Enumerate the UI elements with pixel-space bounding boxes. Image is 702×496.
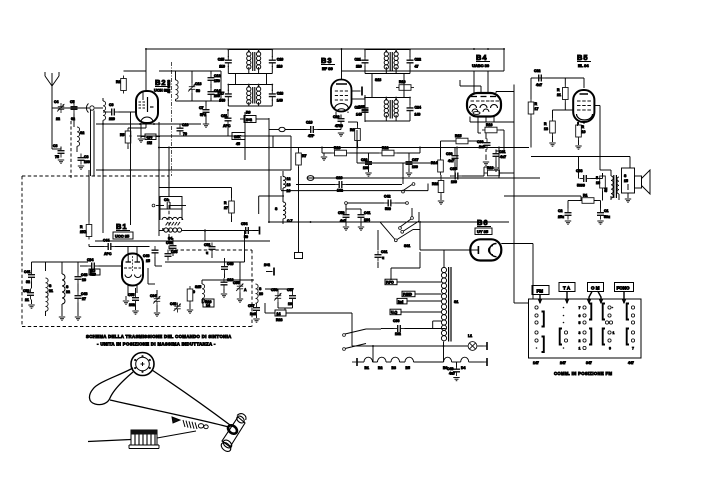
svg-text:C55: C55 <box>128 293 134 297</box>
primary tap P.FO <box>385 279 441 285</box>
wire <box>146 48 504 50</box>
resistor R19 <box>576 122 586 140</box>
capacitor C8 <box>78 154 90 165</box>
capacitor C32 <box>534 69 546 87</box>
capacitor C6 <box>108 103 119 121</box>
svg-text:140: 140 <box>356 112 362 116</box>
svg-text:UCC 85: UCC 85 <box>115 234 130 239</box>
svg-text:C36: C36 <box>393 319 399 323</box>
svg-text:C51: C51 <box>204 243 210 247</box>
resistor R7 <box>296 150 307 168</box>
tube B4 UABC80 <box>467 93 501 117</box>
resistor R17 <box>528 99 538 117</box>
svg-text:COMM. IN POSIZIONE FM: COMM. IN POSIZIONE FM <box>554 371 612 376</box>
wire primary verticals <box>390 268 392 280</box>
svg-text:110: 110 <box>277 65 283 69</box>
capacitor C1 electrolytic <box>597 209 610 220</box>
svg-text:C33: C33 <box>171 250 177 254</box>
svg-text:C20: C20 <box>333 115 339 119</box>
svg-text:B1: B1 <box>116 222 128 231</box>
capacitor C50 <box>338 211 350 224</box>
svg-text:D4: D4 <box>461 366 466 370</box>
resistor R13 <box>332 146 350 156</box>
svg-text:10: 10 <box>287 189 291 193</box>
capacitor C28 <box>361 158 372 171</box>
svg-text:R: R <box>544 122 547 126</box>
svg-text:S61: S61 <box>404 244 410 248</box>
svg-text:19: 19 <box>582 130 586 134</box>
svg-text:56: 56 <box>196 89 200 93</box>
svg-text:C19: C19 <box>306 121 312 125</box>
svg-text:R15: R15 <box>455 134 461 138</box>
capacitor C14 <box>208 88 221 99</box>
svg-text:B2: B2 <box>155 78 167 87</box>
svg-text:R12: R12 <box>382 146 388 150</box>
svg-text:7: 7 <box>579 306 581 310</box>
svg-text:C.7: C.7 <box>287 219 293 223</box>
svg-text:C9: C9 <box>164 198 169 202</box>
dial drum <box>129 430 159 449</box>
svg-text:C32: C32 <box>534 69 540 73</box>
plug connector <box>86 104 94 113</box>
svg-text:14: 14 <box>206 304 210 308</box>
capacitor C3 <box>52 144 65 159</box>
svg-text:22: 22 <box>66 290 70 294</box>
resistor R22 <box>432 178 444 196</box>
coil S25 <box>195 284 205 303</box>
svg-text:6: 6 <box>579 314 581 318</box>
resistor R1 <box>579 194 597 204</box>
svg-text:4u7: 4u7 <box>500 155 506 159</box>
capacitor C55 <box>128 293 139 307</box>
capacitor C10f <box>221 278 234 289</box>
resistor R21 <box>557 85 568 103</box>
label B3 <box>321 56 335 71</box>
svg-text:21: 21 <box>49 289 53 293</box>
svg-text:13: 13 <box>287 183 291 187</box>
svg-text:C40: C40 <box>447 367 453 371</box>
resistor R15 <box>453 134 471 144</box>
switch contact SW-a <box>402 183 415 193</box>
capacitor C2 electrolytic <box>558 209 572 220</box>
label B2 <box>154 78 169 93</box>
svg-text:17: 17 <box>535 107 539 111</box>
svg-text:- UNITA IN POSIZIONE DI MA: - UNITA IN POSIZIONE DI MASSIMA INDUTTAN… <box>97 342 216 347</box>
wire grid to B2 <box>95 107 103 109</box>
svg-text:147: 147 <box>533 361 539 365</box>
svg-text:R: R <box>582 125 585 129</box>
terminal plate B3 <box>352 87 363 96</box>
primary tap U.Q <box>390 309 441 315</box>
heater chain <box>352 357 487 370</box>
svg-text:B3: B3 <box>321 56 333 65</box>
field coil box <box>622 168 635 193</box>
svg-text:EL 84: EL 84 <box>578 63 589 68</box>
svg-text:C17: C17 <box>218 91 224 95</box>
svg-text:B6: B6 <box>477 218 489 227</box>
svg-text:B5: B5 <box>577 53 589 62</box>
button FM <box>532 286 549 304</box>
svg-text:1: 1 <box>613 331 615 335</box>
capacitor C58 <box>287 288 296 306</box>
speaker <box>635 170 651 194</box>
svg-text:ind: ind <box>398 300 403 304</box>
resistor R5-16 <box>596 173 605 191</box>
svg-text:A: A <box>244 288 247 292</box>
svg-text:R8: R8 <box>350 128 355 132</box>
ground <box>58 160 64 163</box>
svg-text:47: 47 <box>415 65 419 69</box>
capacitor C41 <box>358 211 371 223</box>
svg-text:R6: R6 <box>246 111 251 115</box>
svg-text:100: 100 <box>451 180 457 184</box>
dashed screen left <box>70 121 72 178</box>
svg-text:110: 110 <box>356 65 362 69</box>
ground <box>138 139 144 142</box>
svg-text:C1: C1 <box>604 209 609 213</box>
svg-text:100: 100 <box>84 160 90 164</box>
svg-text:2u2: 2u2 <box>250 312 256 316</box>
tuner shaft <box>220 414 246 454</box>
svg-text:247: 247 <box>560 361 566 365</box>
ground <box>338 133 344 136</box>
svg-text:C24: C24 <box>415 105 421 109</box>
svg-text:5000: 5000 <box>577 184 585 188</box>
svg-text:500: 500 <box>385 207 391 211</box>
capacitor C61 <box>375 250 388 262</box>
svg-text:2uF: 2uF <box>479 145 486 149</box>
resistor R16 <box>482 123 500 133</box>
svg-text:L1: L1 <box>468 334 472 338</box>
resistor R27 <box>224 198 234 216</box>
capacitor C11 <box>221 114 232 128</box>
svg-text:9: 9 <box>193 290 195 294</box>
capacitor C46 <box>143 246 159 263</box>
svg-text:12: 12 <box>287 177 291 181</box>
wire output feed <box>531 156 630 158</box>
capacitor C7 <box>199 106 210 118</box>
svg-text:C2: C2 <box>558 209 563 213</box>
svg-text:S9 0089: S9 0089 <box>167 80 171 93</box>
node junction diamond <box>279 127 285 131</box>
capacitor C43b <box>75 292 88 303</box>
capacitor C52 <box>241 222 253 239</box>
svg-text:C7: C7 <box>199 106 204 110</box>
svg-text:P.IND: P.IND <box>403 293 412 297</box>
svg-text:C11: C11 <box>221 114 227 118</box>
svg-text:C16: C16 <box>182 123 188 127</box>
svg-text:FONO: FONO <box>617 286 630 291</box>
svg-text:150: 150 <box>214 79 220 83</box>
svg-text:15: 15 <box>624 179 628 183</box>
ground <box>78 166 84 169</box>
IF transformer S11 S12 <box>247 50 261 74</box>
svg-text:5: 5 <box>579 321 581 325</box>
svg-text:UABC 80: UABC 80 <box>472 63 490 68</box>
svg-text:5: 5 <box>596 176 598 180</box>
svg-text:C43: C43 <box>81 273 87 277</box>
svg-text:21: 21 <box>25 298 29 302</box>
capacitor C18 <box>269 90 283 103</box>
ground <box>203 124 209 127</box>
svg-text:B4: B4 <box>476 53 488 62</box>
svg-text:C16: C16 <box>277 58 283 62</box>
svg-text:C41: C41 <box>364 211 370 215</box>
wire output <box>591 178 603 180</box>
svg-text:B2: B2 <box>378 366 383 370</box>
svg-text:S: S <box>624 174 627 178</box>
capacitor C41f <box>24 270 35 284</box>
resistor R8 <box>350 126 360 144</box>
svg-text:S2: S2 <box>80 131 84 135</box>
oscillator coil S9 <box>167 71 178 101</box>
svg-text:O M: O M <box>591 286 600 291</box>
mains switch lower <box>343 329 446 351</box>
wire cans verticals <box>235 74 237 85</box>
svg-text:2: 2 <box>579 339 581 343</box>
svg-text:47P: 47P <box>308 134 315 138</box>
svg-text:3: 3 <box>579 331 581 335</box>
resistor R23 <box>485 166 503 176</box>
svg-text:27: 27 <box>224 206 228 210</box>
svg-text:S13: S13 <box>375 78 381 82</box>
svg-text:R: R <box>224 201 227 205</box>
gang dash-dot link <box>171 62 173 176</box>
svg-text:S4: S4 <box>168 237 172 241</box>
svg-text:R: R <box>535 102 538 106</box>
svg-text:4u7: 4u7 <box>340 219 346 223</box>
wire osc <box>159 70 221 72</box>
svg-text:45: 45 <box>236 142 240 146</box>
svg-text:FM: FM <box>537 289 544 294</box>
svg-text:C18: C18 <box>277 91 283 95</box>
wire B5 <box>552 110 554 118</box>
svg-text:C44: C44 <box>103 239 109 243</box>
wire plug down-pair <box>90 110 92 176</box>
svg-text:C5: C5 <box>70 100 75 104</box>
svg-text:EF 89: EF 89 <box>322 66 333 71</box>
svg-text:C4: C4 <box>54 100 59 104</box>
svg-text:447: 447 <box>628 361 634 365</box>
svg-text:U.Q: U.Q <box>391 311 398 315</box>
node dot <box>204 229 206 231</box>
svg-text:C13: C13 <box>195 82 201 86</box>
svg-text:APC: APC <box>223 124 231 128</box>
power transformer S1 <box>441 267 458 342</box>
svg-text:C35: C35 <box>450 167 456 171</box>
capacitor C5 <box>70 100 78 121</box>
wire B4 pins <box>473 71 475 93</box>
svg-text:220: 220 <box>109 117 115 121</box>
svg-text:4u7: 4u7 <box>536 83 542 87</box>
wire cathode <box>140 123 142 138</box>
coil L ant <box>103 98 106 124</box>
diagonal wire <box>380 222 395 240</box>
svg-text:S1: S1 <box>454 300 458 304</box>
svg-text:R22: R22 <box>432 182 438 186</box>
svg-text:16: 16 <box>82 278 86 282</box>
svg-text:B1: B1 <box>365 366 370 370</box>
svg-text:S25: S25 <box>195 285 201 289</box>
capacitor C24 <box>407 104 421 117</box>
trimmer C13 <box>188 82 201 93</box>
svg-text:1: 1 <box>579 347 581 351</box>
mains switch contacts <box>394 212 420 248</box>
svg-text:S: S <box>49 284 52 288</box>
svg-text:C29: C29 <box>336 176 342 180</box>
button OM <box>587 283 603 304</box>
cord tension spring <box>172 417 208 429</box>
svg-text:C36: C36 <box>446 152 452 156</box>
trimmer C56 <box>233 281 247 293</box>
svg-text:1M: 1M <box>147 141 152 145</box>
capacitor C30 electrolytic <box>477 139 491 150</box>
svg-text:C41: C41 <box>24 270 30 274</box>
capacitor C31 <box>493 150 507 161</box>
capacitor C4 trimmer <box>54 100 65 121</box>
capacitor C16 <box>269 56 283 69</box>
svg-text:4u7: 4u7 <box>448 159 454 163</box>
svg-text:102: 102 <box>337 189 343 193</box>
svg-text:9: 9 <box>609 347 611 351</box>
svg-text:u: u <box>206 251 208 255</box>
wire <box>365 49 410 51</box>
svg-text:C3: C3 <box>53 144 58 148</box>
label B6 <box>475 218 492 235</box>
resistor R26 box <box>203 299 214 308</box>
label B4 <box>472 53 490 68</box>
svg-text:2+2: 2+2 <box>246 118 252 122</box>
resistor R9f <box>187 286 195 304</box>
pilot lamp L1 <box>366 334 487 362</box>
svg-text:32: 32 <box>26 280 30 284</box>
antenna <box>45 72 59 149</box>
capacitor C21 <box>355 56 369 69</box>
svg-text:21: 21 <box>557 93 561 97</box>
button TA <box>559 283 575 304</box>
primary tap P.IND <box>402 291 441 297</box>
resistor R14 <box>431 157 443 175</box>
resistor R1f <box>80 222 92 240</box>
svg-text:R28: R28 <box>276 318 282 322</box>
capacitor C53 <box>23 289 34 303</box>
svg-text:C15: C15 <box>218 58 224 62</box>
svg-text:R13: R13 <box>334 146 340 150</box>
svg-text:16: 16 <box>596 181 600 185</box>
svg-text:7: 7 <box>632 347 634 351</box>
svg-text:C42: C42 <box>384 195 390 199</box>
svg-text:4u7: 4u7 <box>449 372 455 376</box>
svg-text:C57: C57 <box>248 304 254 308</box>
capacitor C33f <box>165 250 178 261</box>
capacitor C43a <box>75 273 88 284</box>
svg-text:R10: R10 <box>399 80 405 84</box>
capacitor C27 <box>406 158 419 170</box>
switch contact SW-b <box>399 208 414 229</box>
svg-text:S: S <box>66 285 69 289</box>
junction dots <box>145 48 147 50</box>
oscillator transformer S4/C9 <box>152 197 186 241</box>
capacitor C10 <box>139 123 188 136</box>
svg-text:C64: C64 <box>150 294 156 298</box>
svg-text:C22: C22 <box>415 58 421 62</box>
coil S21 <box>46 278 53 311</box>
resistor R3 box <box>141 134 160 145</box>
svg-text:P.FO: P.FO <box>386 281 394 285</box>
svg-text:50u: 50u <box>604 215 610 219</box>
ground <box>453 378 459 381</box>
capacitor C15 <box>218 56 232 69</box>
svg-text:C6: C6 <box>109 103 114 107</box>
svg-text:C61: C61 <box>381 250 387 254</box>
coil S17b <box>275 202 293 223</box>
svg-text:R2: R2 <box>116 80 121 84</box>
tube B6 UY85 <box>470 239 501 260</box>
tube B1 UCC85 <box>122 254 143 297</box>
svg-text:523: 523 <box>90 273 96 277</box>
svg-text:R: R <box>557 88 560 92</box>
svg-text:27: 27 <box>82 297 86 301</box>
capacitor C12 <box>208 74 221 85</box>
svg-text:R1: R1 <box>583 194 588 198</box>
terminal P <box>264 263 274 276</box>
capacitor C45 <box>166 241 177 253</box>
wire middle verticals <box>345 222 347 227</box>
svg-text:104: 104 <box>364 218 370 222</box>
svg-text:C55: C55 <box>233 281 239 285</box>
capacitor C20 <box>333 115 345 129</box>
svg-text:S: S <box>275 207 278 211</box>
resistor R12 <box>379 146 397 156</box>
svg-text:C43: C43 <box>81 292 87 296</box>
coil S2 <box>77 127 84 152</box>
primary tap ind <box>397 298 441 304</box>
svg-text:T A: T A <box>563 286 571 291</box>
tube B5 EL84 <box>573 90 594 126</box>
svg-text:R: R <box>80 225 83 229</box>
svg-text:C21: C21 <box>355 58 361 62</box>
svg-text:R16: R16 <box>486 123 492 127</box>
IF transformer S13 <box>384 50 398 74</box>
svg-text:100: 100 <box>412 165 418 169</box>
tuning pulley <box>131 353 154 376</box>
capacitor C23 <box>355 104 369 117</box>
svg-text:347: 347 <box>586 361 592 365</box>
capacitor C40 <box>447 362 460 376</box>
capacitor C51 <box>204 243 216 256</box>
svg-text:22: 22 <box>56 117 60 121</box>
capacitor C36 <box>446 152 459 164</box>
svg-text:B3: B3 <box>392 366 397 370</box>
capacitor C29 <box>296 176 402 193</box>
svg-text:C25: C25 <box>358 105 364 109</box>
svg-text:10K: 10K <box>234 135 241 139</box>
wire B3 bottom <box>340 115 342 119</box>
wire <box>227 125 229 136</box>
svg-text:C28: C28 <box>361 158 367 162</box>
resistor R28 <box>275 310 286 322</box>
capacitor C19 <box>306 121 318 139</box>
capacitor C35 <box>450 167 462 184</box>
svg-text:C46: C46 <box>143 254 149 258</box>
svg-text:C53: C53 <box>23 289 29 293</box>
resistor R5 <box>120 128 131 146</box>
svg-text:R23: R23 <box>487 166 493 170</box>
svg-text:APC: APC <box>104 252 112 256</box>
svg-text:S2: S2 <box>604 188 608 192</box>
svg-text:B5: B5 <box>406 366 411 370</box>
svg-text:110: 110 <box>219 65 225 69</box>
